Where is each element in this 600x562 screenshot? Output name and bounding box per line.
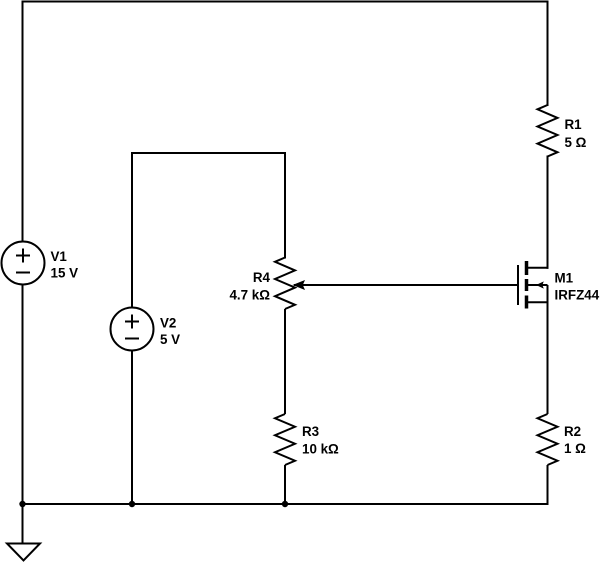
svg-text:4.7 kΩ: 4.7 kΩ (229, 288, 270, 303)
ground (7, 504, 40, 561)
svg-text:1 Ω: 1 Ω (564, 441, 586, 456)
svg-text:V1: V1 (51, 249, 68, 264)
transistor M1 (N-MOSFET) (518, 261, 548, 309)
svg-text:M1: M1 (555, 271, 574, 286)
potentiometer R4 (275, 258, 295, 310)
wiper arrowhead (293, 280, 306, 290)
wire: mid horizontal rail (V2 top to R4 branch) (132, 152, 285, 154)
svg-text:15 V: 15 V (51, 266, 79, 281)
svg-text:R4: R4 (253, 270, 271, 285)
wire: R2 bottom stem (547, 465, 549, 504)
resistor R3 (275, 414, 295, 465)
wire: R4 to R3 (284, 309, 286, 414)
svg-text:R3: R3 (302, 424, 319, 439)
wire: R3 bottom stem (284, 465, 286, 504)
wire: right vertical top (top rail to R1) (547, 2, 549, 106)
svg-text:5 V: 5 V (160, 332, 180, 347)
svg-text:10 kΩ: 10 kΩ (302, 442, 339, 457)
wire: bottom rail (23, 503, 548, 505)
wire: V2 top stem (131, 153, 133, 308)
wire: R4 top stem (284, 153, 286, 258)
resistor R2 (538, 414, 558, 465)
resistor R1 (538, 105, 558, 157)
voltage source V2 (111, 308, 154, 351)
wire: R1 to M1 drain (547, 157, 549, 268)
wire: top rail (23, 1, 548, 3)
svg-text:5 Ω: 5 Ω (565, 135, 587, 150)
node: junction dot ground/bottom rail (19, 501, 25, 507)
wire: M1 source vertical to R2 (547, 285, 549, 414)
svg-text:R1: R1 (565, 117, 583, 132)
voltage source V1 (2, 242, 45, 285)
wire: gate wire (R4 wiper to M1 gate) (294, 284, 518, 286)
wire: V2 bottom stem (131, 351, 133, 505)
wire: left vertical top (V1 top to top rail) (22, 2, 24, 242)
svg-text:R2: R2 (564, 424, 581, 439)
svg-text:V2: V2 (160, 316, 176, 331)
svg-text:IRFZ44: IRFZ44 (555, 288, 600, 303)
node: junction dot R3/bottom rail (282, 501, 288, 507)
node: junction dot V2/bottom rail (129, 501, 135, 507)
wire: left vertical bottom (V1 bottom to bottom rail) (22, 285, 24, 505)
